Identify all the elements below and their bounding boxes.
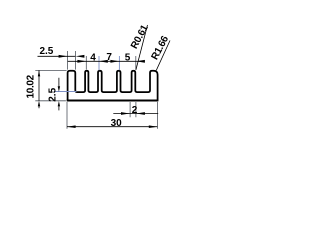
R1.66 leader [156,41,170,71]
svg-text:2: 2 [132,105,138,116]
2.5 vertical dimension (left) [58,78,60,111]
2 dimension row (fin thickness) [113,112,158,115]
profile bottom edge (thicker) [67,100,159,102]
svg-text:4: 4 [90,52,96,63]
dimension row B (4 7 5) [68,60,145,63]
svg-text:R0.61: R0.61 [129,23,151,51]
labels [26,23,172,129]
svg-text:2.5: 2.5 [39,46,53,57]
30 dimension row [67,125,157,128]
svg-text:2.5: 2.5 [48,87,59,101]
svg-text:10.02: 10.02 [26,74,37,98]
extension lines [35,51,157,129]
svg-text:R1.66: R1.66 [150,34,172,62]
heatsink profile outline [68,71,158,101]
svg-text:5: 5 [125,53,131,64]
R0.61 leader [136,25,148,70]
svg-text:30: 30 [111,118,123,129]
dimension row A (2.5 top) [38,55,85,58]
10.02 vertical dimension [38,70,40,108]
svg-text:7: 7 [106,52,112,63]
